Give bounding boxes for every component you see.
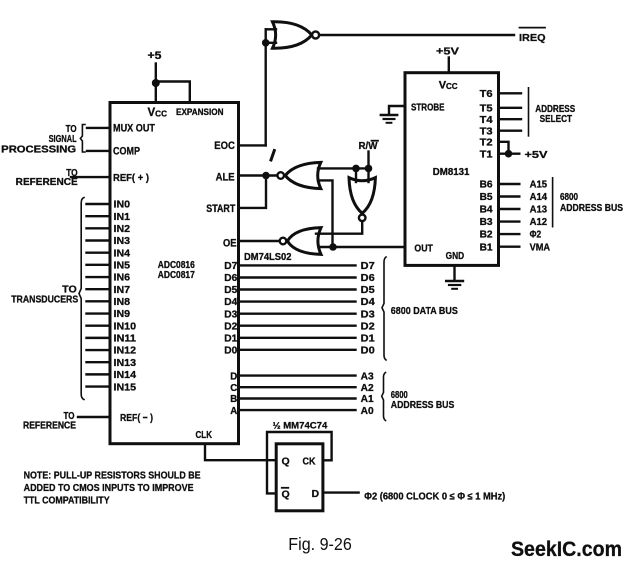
- svg-text:½ MM74C74: ½ MM74C74: [273, 421, 328, 432]
- svg-text:REF( − ): REF( − ): [120, 412, 153, 424]
- svg-text:ADDRESS BUS: ADDRESS BUS: [391, 400, 455, 411]
- svg-text:IN0: IN0: [114, 200, 131, 211]
- svg-text:IN15: IN15: [114, 382, 137, 393]
- svg-text:NOTE: PULL-UP RESISTORS SHOULD: NOTE: PULL-UP RESISTORS SHOULD BE: [24, 471, 201, 482]
- svg-text:TRANSDUCERS: TRANSDUCERS: [11, 294, 78, 305]
- svg-text:IN10: IN10: [114, 321, 137, 332]
- svg-text:6800 DATA BUS: 6800 DATA BUS: [391, 306, 458, 317]
- svg-text:IN8: IN8: [114, 297, 131, 308]
- svg-text:VCC: VCC: [439, 80, 458, 92]
- svg-text:Φ2: Φ2: [530, 230, 542, 241]
- wire CLK to flip-flop: [205, 444, 276, 461]
- svg-text:D7: D7: [361, 261, 375, 272]
- wire EOC: [239, 144, 266, 146]
- svg-text:SIGNAL: SIGNAL: [49, 134, 77, 145]
- wires address lines: [239, 374, 356, 376]
- svg-text:D0: D0: [224, 345, 237, 356]
- wire OE: [239, 240, 280, 242]
- svg-text:IN1: IN1: [114, 212, 131, 223]
- svg-text:D4: D4: [224, 297, 237, 308]
- bracket transducers: [79, 198, 84, 400]
- svg-text:IN7: IN7: [114, 285, 131, 296]
- svg-text:IN13: IN13: [114, 358, 137, 369]
- wire gate C output: [316, 221, 362, 233]
- wire T1 to +5V: [499, 152, 520, 154]
- svg-text:D2: D2: [224, 321, 237, 332]
- svg-text:IREQ: IREQ: [519, 32, 546, 44]
- svg-text:SeekIC.com: SeekIC.com: [511, 537, 622, 561]
- svg-text:ALE: ALE: [216, 171, 235, 183]
- svg-text:EXPANSION: EXPANSION: [176, 106, 224, 117]
- wire STROBE to ground: [389, 106, 405, 114]
- comparator U2 DM8131: [405, 73, 499, 266]
- svg-text:+5: +5: [148, 50, 162, 62]
- svg-text:REFERENCE: REFERENCE: [23, 420, 76, 431]
- svg-text:B5: B5: [480, 192, 493, 203]
- svg-text:A0: A0: [361, 406, 374, 417]
- svg-text:A3: A3: [361, 371, 374, 382]
- svg-text:Fig. 9-26: Fig. 9-26: [288, 534, 352, 554]
- svg-text:DM8131: DM8131: [433, 167, 470, 178]
- wire REF(+): [71, 176, 110, 178]
- junction ALE/START: [262, 172, 270, 180]
- svg-text:START: START: [206, 203, 235, 215]
- wire OUT net (DM8131 to gate D): [320, 246, 406, 248]
- svg-text:D: D: [230, 371, 237, 382]
- svg-text:D5: D5: [361, 285, 375, 296]
- wire to EXPANSION pin: [156, 82, 190, 102]
- svg-text:C: C: [230, 383, 237, 394]
- wire MUX OUT: [87, 127, 110, 129]
- svg-text:CLK: CLK: [196, 430, 213, 441]
- wires IN0-IN15: [87, 203, 111, 205]
- svg-text:IN12: IN12: [114, 346, 137, 357]
- wire Qbar to CK feedback: [267, 432, 332, 493]
- wire +5 to VCC: [155, 64, 157, 102]
- svg-text:D5: D5: [224, 285, 237, 296]
- svg-text:A2: A2: [361, 383, 374, 394]
- svg-text:PROCESSING: PROCESSING: [1, 145, 76, 156]
- junction R/W node left: [352, 165, 360, 173]
- NOR gate B (drives ALE/START): [277, 172, 284, 179]
- svg-text:+5V: +5V: [436, 46, 459, 58]
- svg-text:A15: A15: [530, 180, 548, 191]
- wire D input phi2: [323, 491, 359, 493]
- bracket 6800 data bus: [382, 257, 386, 360]
- bracket 6800 address bus: [382, 373, 386, 421]
- wire ALE to START: [239, 176, 267, 208]
- svg-text:D3: D3: [361, 309, 375, 320]
- svg-text:A: A: [230, 406, 237, 417]
- svg-text:D3: D3: [224, 309, 237, 320]
- wire +5V to VCC: [448, 58, 450, 73]
- svg-text:Q: Q: [282, 488, 290, 500]
- svg-text:IN5: IN5: [114, 261, 131, 272]
- wire REF(-): [78, 416, 110, 418]
- mark 1 (gate number): [271, 151, 274, 161]
- svg-text:6800: 6800: [391, 390, 408, 401]
- ground (STROBE): [381, 114, 397, 116]
- svg-text:B6: B6: [480, 180, 493, 191]
- svg-text:COMP: COMP: [113, 145, 140, 157]
- svg-text:VMA: VMA: [530, 242, 551, 253]
- wire gate B bottom input: [318, 180, 333, 247]
- svg-text:IN9: IN9: [114, 309, 131, 320]
- wire COMP: [87, 150, 110, 152]
- svg-text:IN11: IN11: [114, 334, 137, 345]
- svg-text:D6: D6: [224, 273, 237, 284]
- svg-text:T3: T3: [480, 126, 493, 137]
- svg-text:VCC: VCC: [148, 107, 168, 119]
- wire gate C input right: [367, 168, 369, 182]
- svg-text:D4: D4: [361, 297, 375, 308]
- NOR gate D (drives OE): [280, 238, 287, 245]
- svg-text:DM74LS02: DM74LS02: [244, 252, 292, 263]
- svg-text:A12: A12: [530, 217, 548, 228]
- wire gate B top input / R/W net: [318, 167, 369, 169]
- ADC U1 ADC0816/ADC0817: [110, 103, 239, 444]
- bracket address select: [528, 88, 530, 136]
- svg-text:T1: T1: [480, 149, 493, 160]
- junction T1/T2: [505, 150, 513, 158]
- svg-text:CK: CK: [303, 455, 316, 467]
- svg-text:D2: D2: [361, 321, 375, 332]
- junction +5/EXPANSION: [152, 79, 160, 87]
- svg-text:Q: Q: [282, 456, 290, 468]
- svg-text:Φ2 (6800 CLOCK 0 ≤ Φ ≤ 1 MHz): Φ2 (6800 CLOCK 0 ≤ Φ ≤ 1 MHz): [364, 492, 505, 503]
- svg-text:EOC: EOC: [214, 140, 235, 152]
- svg-text:D1: D1: [361, 333, 375, 344]
- wires data lines D7-D0: [239, 264, 356, 266]
- svg-text:MUX OUT: MUX OUT: [113, 123, 155, 135]
- svg-text:IN3: IN3: [114, 236, 131, 247]
- wires T6-T3: [499, 92, 522, 94]
- ground (GND): [446, 280, 463, 282]
- svg-text:IN4: IN4: [114, 248, 131, 259]
- svg-text:SELECT: SELECT: [540, 114, 573, 125]
- svg-text:6800: 6800: [560, 192, 578, 203]
- junction gate A inputs: [262, 39, 270, 47]
- svg-text:D6: D6: [361, 273, 375, 284]
- svg-text:D1: D1: [224, 333, 237, 344]
- wire ALE: [239, 174, 278, 176]
- svg-text:ADC0817: ADC0817: [158, 270, 195, 281]
- wire EOC up to gate: [265, 29, 267, 145]
- svg-text:REFERENCE: REFERENCE: [16, 177, 78, 188]
- svg-text:OE: OE: [223, 238, 237, 250]
- svg-text:B: B: [230, 394, 237, 405]
- svg-text:B1: B1: [480, 242, 493, 253]
- svg-text:T4: T4: [480, 115, 493, 126]
- svg-text:T5: T5: [480, 103, 493, 114]
- wires B6-B1: [499, 183, 520, 185]
- svg-text:T6: T6: [480, 89, 493, 100]
- svg-text:OUT: OUT: [414, 244, 433, 255]
- svg-text:GND: GND: [446, 251, 465, 262]
- NOR gate C (R/W inverter, points down): [349, 178, 375, 214]
- svg-text:REF( + ): REF( + ): [113, 172, 149, 184]
- wire gate A input stubs: [266, 28, 276, 30]
- svg-text:TTL COMPATIBILITY: TTL COMPATIBILITY: [24, 495, 110, 506]
- svg-text:A13: A13: [530, 205, 548, 216]
- bracket 6800 address bus (right): [552, 178, 554, 227]
- svg-text:B3: B3: [480, 217, 493, 228]
- svg-text:T2: T2: [480, 137, 493, 148]
- svg-text:IN2: IN2: [114, 224, 131, 235]
- wire gate C input left: [355, 168, 357, 182]
- bracket signal processing: [80, 125, 85, 153]
- svg-text:D0: D0: [361, 345, 375, 356]
- svg-text:B4: B4: [480, 205, 493, 216]
- junction OUT/gate B: [329, 243, 337, 251]
- svg-text:IN6: IN6: [114, 273, 131, 284]
- svg-text:IN14: IN14: [114, 370, 137, 381]
- wire R/W down: [367, 152, 369, 169]
- junction R/W node right: [365, 165, 373, 173]
- svg-text:ADDED TO CMOS INPUTS TO IMPROV: ADDED TO CMOS INPUTS TO IMPROVE: [24, 483, 194, 494]
- svg-text:ADDRESS BUS: ADDRESS BUS: [560, 203, 623, 214]
- svg-text:A1: A1: [361, 394, 374, 405]
- NOR gate A (EOC inverter) DM74LS02: [273, 22, 312, 48]
- flip-flop U3 1/2 MM74C74: [276, 444, 323, 511]
- wire gate A output to IREQ: [320, 34, 515, 36]
- wire T2 to T1: [499, 142, 509, 154]
- svg-text:D7: D7: [224, 261, 237, 272]
- svg-text:A14: A14: [530, 192, 548, 203]
- wire GND: [453, 265, 455, 279]
- svg-text:B2: B2: [480, 230, 493, 241]
- svg-text:STROBE: STROBE: [411, 103, 445, 114]
- svg-text:+5V: +5V: [525, 149, 548, 161]
- svg-text:D: D: [312, 488, 320, 500]
